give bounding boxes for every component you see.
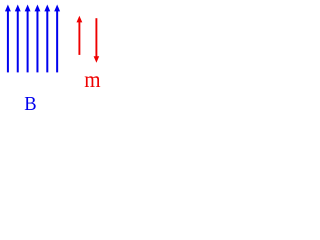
svg-text:m: m [84, 66, 100, 92]
svg-text:B: B [24, 93, 36, 114]
